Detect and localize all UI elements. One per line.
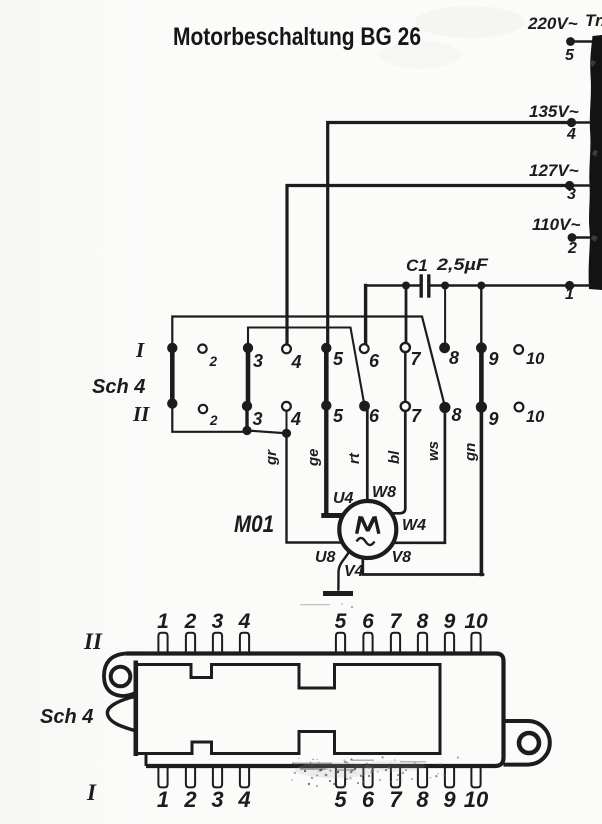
svg-text:9: 9 [443,787,456,812]
svg-text:1: 1 [157,787,169,812]
svg-text:8: 8 [417,610,429,633]
svg-text:I: I [135,338,145,362]
svg-text:U4: U4 [333,490,354,507]
svg-text:2: 2 [209,413,218,428]
svg-text:9: 9 [444,610,456,633]
svg-text:127V~: 127V~ [529,161,579,180]
svg-text:C1: C1 [406,256,428,275]
svg-text:110V~: 110V~ [532,215,580,234]
svg-text:Motorbeschaltung BG 26: Motorbeschaltung BG 26 [173,23,421,51]
svg-text:3: 3 [212,610,224,633]
svg-text:135V~: 135V~ [529,102,579,121]
svg-text:Sch 4: Sch 4 [92,376,145,398]
svg-text:Sch 4: Sch 4 [40,706,93,728]
svg-text:M01: M01 [234,511,274,538]
svg-text:7: 7 [389,787,403,812]
svg-text:5: 5 [335,610,347,633]
svg-text:2: 2 [567,240,577,257]
svg-text:gr: gr [263,449,280,466]
svg-text:ws: ws [425,441,442,461]
svg-text:10: 10 [526,350,545,368]
svg-text:I: I [86,780,97,805]
svg-text:7: 7 [411,349,422,369]
svg-text:9: 9 [489,409,499,429]
svg-text:II: II [83,629,103,654]
svg-text:6: 6 [362,610,374,633]
svg-text:2: 2 [184,610,197,633]
svg-text:5: 5 [334,787,347,812]
svg-text:5: 5 [565,47,575,64]
svg-text:bl: bl [386,450,403,464]
svg-text:4: 4 [237,787,250,812]
svg-text:6: 6 [369,351,380,371]
svg-text:3: 3 [253,409,263,429]
svg-text:ge: ge [305,448,322,467]
svg-text:5: 5 [333,406,344,426]
svg-text:8: 8 [416,787,429,812]
svg-text:3: 3 [211,787,223,812]
svg-text:2,5µF: 2,5µF [436,255,489,274]
svg-text:1: 1 [157,610,169,633]
svg-text:gn: gn [462,443,479,462]
svg-text:2: 2 [183,787,197,812]
svg-text:4: 4 [566,126,576,143]
svg-text:9: 9 [489,349,499,369]
svg-text:8: 8 [452,405,462,425]
svg-text:10: 10 [526,408,545,426]
svg-text:4: 4 [238,610,251,633]
svg-text:220V~: 220V~ [527,14,578,33]
svg-text:4: 4 [290,409,301,429]
svg-text:2: 2 [209,354,218,369]
svg-text:II: II [132,402,150,426]
svg-text:5: 5 [333,349,344,369]
svg-text:3: 3 [253,351,263,371]
svg-text:V8: V8 [392,549,412,566]
svg-text:3: 3 [567,186,576,203]
svg-text:6: 6 [369,406,380,426]
svg-text:rt: rt [346,452,363,464]
svg-text:Tr.: Tr. [585,11,602,30]
svg-text:4: 4 [291,352,302,372]
svg-text:1: 1 [565,286,574,303]
svg-text:V4: V4 [344,563,364,580]
svg-text:W4: W4 [402,517,426,534]
svg-text:6: 6 [362,787,375,812]
svg-text:U8: U8 [315,549,336,566]
svg-text:8: 8 [449,348,459,368]
svg-text:W8: W8 [372,484,396,501]
svg-text:10: 10 [464,610,488,633]
svg-text:7: 7 [411,406,422,426]
svg-text:10: 10 [464,787,489,812]
svg-text:7: 7 [390,610,403,633]
